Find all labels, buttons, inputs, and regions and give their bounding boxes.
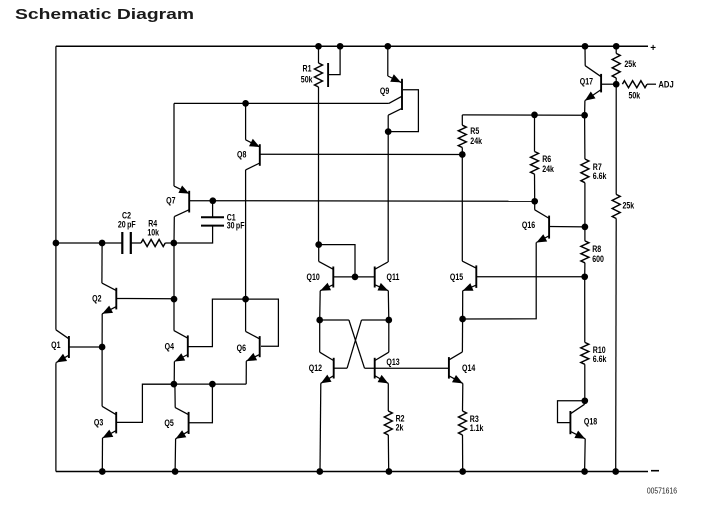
wire ADJ node down to 25k lower bbox=[615, 84, 617, 194]
wire R6 bottom lead bbox=[534, 174, 536, 201]
wire R3 to rail bbox=[462, 435, 464, 472]
svg-text:Q12: Q12 bbox=[309, 363, 323, 373]
wire C2 to R4 bbox=[131, 242, 141, 244]
svg-text:Q2: Q2 bbox=[92, 294, 102, 304]
wire 25k lower to rail bbox=[615, 219, 618, 472]
wire Q15 collector column bbox=[461, 155, 463, 262]
svg-text:Q15: Q15 bbox=[450, 272, 464, 282]
wire Q2 base bbox=[116, 298, 174, 300]
transistor Q9 collector diagonal bbox=[388, 109, 401, 116]
svg-text:Q18: Q18 bbox=[584, 417, 598, 427]
resistor 50k bbox=[622, 81, 647, 88]
wire X right horizontal bbox=[362, 319, 389, 321]
svg-text:Q8: Q8 bbox=[237, 150, 247, 160]
wire Q10 collector drop bbox=[318, 245, 320, 262]
wire Q12 base segment bbox=[334, 367, 347, 369]
transistor Q7 bbox=[174, 186, 189, 217]
node R8 bottom / Q15 base bbox=[581, 273, 588, 280]
resistor R2 bbox=[384, 411, 392, 435]
node Q9 collector junction bbox=[385, 128, 392, 135]
wire Q10 collector-base tie bbox=[319, 245, 355, 277]
svg-text:Q16: Q16 bbox=[522, 220, 536, 230]
wire Q8 emitter from line bbox=[245, 103, 247, 139]
node Q9 emitter on rail bbox=[384, 43, 391, 50]
node Q16 base / R7 / R8 bbox=[582, 224, 589, 231]
transistor Q9 base diagonal bbox=[389, 96, 402, 103]
wire Q9 base-collector loop bbox=[388, 90, 418, 132]
wire Q12 emitter to rail bbox=[319, 383, 322, 471]
wire Q10-Q11 base line bbox=[333, 276, 374, 278]
resistor R6 bbox=[531, 152, 539, 175]
svg-text:30 pF: 30 pF bbox=[227, 221, 245, 231]
wire Q7 collector down bbox=[173, 217, 175, 243]
node R10 bottom / Q18 bbox=[581, 397, 588, 404]
wire R5 bottom lead bbox=[461, 148, 463, 155]
svg-text:R6: R6 bbox=[542, 154, 551, 164]
wire Q2 collector up bbox=[101, 243, 103, 283]
svg-text:25k: 25k bbox=[623, 201, 635, 211]
node Q8 emitter on Q9 base line bbox=[242, 100, 249, 107]
node Q4 emitter / Q5 collector bbox=[171, 381, 178, 388]
label - terminal bbox=[651, 470, 659, 472]
svg-text:2k: 2k bbox=[396, 423, 404, 433]
node Q6 collector / Q4 base bbox=[242, 296, 249, 303]
svg-text:Q17: Q17 bbox=[580, 77, 594, 87]
wire left rail upper bbox=[55, 46, 57, 330]
svg-text:R1: R1 bbox=[303, 63, 312, 73]
wire Q2 base column bbox=[173, 243, 175, 299]
wire Q18 base loop bbox=[558, 401, 585, 423]
node ADJ bbox=[613, 81, 620, 88]
node Q12 emitter on rail bbox=[316, 468, 323, 475]
wire 25k to ADJ node bbox=[615, 78, 617, 84]
wire Q13 collector drop bbox=[388, 320, 390, 352]
wire Q6 emitter down bbox=[245, 361, 247, 384]
transistor Q11 bbox=[375, 262, 389, 291]
node R3 on rail bbox=[459, 468, 466, 475]
wire R1 bottom to Q10 node bbox=[318, 87, 320, 245]
wire Q18 emitter to rail bbox=[584, 439, 587, 472]
wire Q13-Q14 base line bbox=[365, 367, 449, 369]
wire Q8 collector down to Q6 bbox=[245, 170, 247, 299]
node bar device on rail bbox=[337, 43, 344, 50]
svg-text:50k: 50k bbox=[629, 91, 641, 101]
wire Q5 collector up bbox=[174, 384, 176, 408]
wire R5 top lead bbox=[461, 115, 463, 125]
transistor Q9 emitter diagonal bbox=[388, 76, 402, 83]
svg-text:600: 600 bbox=[592, 254, 604, 264]
svg-text:Q5: Q5 bbox=[164, 418, 174, 428]
wire Q7 base bbox=[189, 200, 213, 202]
transistor Q12 bbox=[320, 352, 334, 383]
wire Q15 emitter down bbox=[462, 291, 464, 319]
wire R8 bottom lead bbox=[584, 263, 586, 277]
node 25k lower on rail bbox=[612, 468, 619, 475]
node Q5 emitter on rail bbox=[172, 468, 179, 475]
resistor R5 bbox=[458, 125, 466, 147]
svg-text:20 pF: 20 pF bbox=[118, 220, 136, 230]
wire rail to C2 bbox=[56, 242, 122, 244]
svg-text:Q11: Q11 bbox=[387, 272, 400, 282]
wire Q12 collector drop bbox=[319, 320, 321, 352]
wire R2 to rail bbox=[387, 435, 389, 472]
wire R4 to C1 corner bbox=[165, 242, 174, 244]
node 25k top on rail bbox=[613, 43, 620, 50]
svg-text:Q6: Q6 bbox=[237, 343, 247, 353]
wire R8 top lead bbox=[584, 227, 586, 241]
transistor Q10 bbox=[319, 261, 334, 290]
wire R7 bottom lead bbox=[584, 183, 586, 227]
wire Q3 base route bbox=[116, 384, 174, 422]
node Q7 base / C1 bbox=[209, 197, 216, 204]
wire V+ top rail bbox=[56, 45, 648, 47]
node Q2 collector branch bbox=[99, 240, 106, 247]
wire Q5 emitter to rail bbox=[174, 439, 177, 472]
resistor R8 bbox=[581, 241, 589, 263]
wire left rail lower bbox=[55, 363, 57, 471]
wire Q17 base to ADJ node bbox=[601, 83, 616, 85]
transistor Q6 bbox=[246, 331, 260, 361]
svg-text:Q1: Q1 bbox=[51, 340, 61, 350]
node R2 on rail bbox=[386, 468, 393, 475]
wire Q15 base line to R8 node bbox=[476, 276, 584, 278]
wire Q14 emitter to R3 bbox=[462, 383, 464, 411]
wire Q9 base line bbox=[174, 102, 389, 104]
svg-text:25k: 25k bbox=[624, 59, 636, 69]
wire X diagonal to Q13 base bbox=[349, 320, 365, 368]
wire Q1 emitter down bbox=[55, 361, 58, 364]
svg-text:50k: 50k bbox=[301, 75, 313, 85]
transistor Q3 bbox=[102, 406, 116, 438]
wire X diagonal to Q12 base bbox=[347, 320, 361, 368]
transistor Q8 bbox=[246, 139, 260, 170]
node Q3 emitter on rail bbox=[99, 468, 106, 475]
node R1 top on rail bbox=[315, 43, 322, 50]
transistor Q1 bbox=[56, 330, 69, 363]
svg-text:00571616: 00571616 bbox=[647, 486, 677, 496]
epi-FET current source bar beside R1 bbox=[327, 63, 329, 87]
wire Q4 emitter down bbox=[173, 362, 175, 385]
svg-text:R5: R5 bbox=[470, 126, 479, 136]
node left rail / C2 line bbox=[53, 240, 60, 247]
wire R5 top corner line bbox=[462, 114, 584, 116]
svg-text:ADJ: ADJ bbox=[658, 79, 674, 90]
wire Q16 base bbox=[549, 226, 585, 228]
resistor R1 bbox=[315, 63, 323, 87]
transistor Q16 bbox=[535, 210, 549, 243]
node Q10-Q11 base tie bbox=[352, 274, 359, 281]
svg-text:Q4: Q4 bbox=[165, 342, 175, 352]
svg-text:Q10: Q10 bbox=[307, 272, 321, 282]
wire C1 riser from Q7 base node bbox=[212, 201, 214, 218]
node Q17 collector on rail bbox=[582, 43, 589, 50]
node Q2 base junction bbox=[171, 296, 178, 303]
svg-text:+: + bbox=[650, 43, 656, 54]
wire Q9 collector down bbox=[387, 115, 389, 131]
wire Q8 base line to R5 node bbox=[260, 153, 463, 155]
transistor Q5 bbox=[175, 408, 188, 439]
node Q17 emitter junction bbox=[581, 112, 588, 119]
transistor Q13 bbox=[375, 352, 389, 383]
node Q11 emitter / Q13 collector bbox=[385, 317, 392, 324]
wire R10 top lead bbox=[584, 277, 586, 343]
wire Q4 base route bbox=[188, 299, 246, 347]
resistor 25k upper bbox=[612, 53, 620, 78]
svg-text:R8: R8 bbox=[592, 244, 601, 254]
wire Q2 emitter down bbox=[101, 314, 103, 347]
node R4 / Q2 base column bbox=[170, 240, 177, 247]
transistor Q17 bbox=[585, 66, 601, 101]
svg-text:6.6k: 6.6k bbox=[593, 354, 607, 364]
wire R7 top lead bbox=[584, 115, 586, 159]
svg-text:24k: 24k bbox=[542, 164, 554, 174]
wire 25k top lead bbox=[615, 46, 617, 53]
wire Q3 collector up bbox=[101, 347, 103, 406]
wire Q11 emitter down bbox=[387, 291, 390, 320]
node R6 top bbox=[531, 112, 538, 119]
wire V- bottom rail bbox=[56, 471, 648, 473]
wire C1 bottom to R4 line bbox=[174, 226, 213, 243]
node Q10 collector / R1 bottom bbox=[315, 241, 322, 248]
svg-text:Q3: Q3 bbox=[94, 417, 104, 427]
wire Q9 collector to Q11 bbox=[387, 132, 389, 263]
capacitor C2 right plate bbox=[130, 232, 132, 254]
node R5 / Q8 base / Q15 collector bbox=[459, 151, 466, 158]
node Q10 emitter / Q12 collector bbox=[316, 317, 323, 324]
resistor 25k lower bbox=[612, 194, 620, 218]
wire Q14 collector up bbox=[461, 319, 463, 352]
wire Q17 collector from rail bbox=[584, 46, 586, 65]
capacitor C1 top plate bbox=[201, 216, 224, 218]
transistor Q9 bar bbox=[401, 79, 403, 110]
node Q18 emitter on rail bbox=[581, 468, 588, 475]
wire Q9 emitter from rail bbox=[387, 46, 389, 76]
wire Q6 base loop bbox=[246, 299, 279, 346]
resistor R7 bbox=[581, 159, 589, 183]
wire to ADJ terminal bbox=[647, 83, 656, 85]
wire Q13 emitter to R2 bbox=[387, 383, 389, 411]
svg-text:Q9: Q9 bbox=[380, 86, 390, 96]
node Q5 base junction bbox=[209, 381, 216, 388]
node Q1 base / Q2-Q3 junction bbox=[99, 344, 106, 351]
svg-text:Q7: Q7 bbox=[166, 196, 176, 206]
resistor R4 bbox=[141, 240, 165, 247]
wire Q2 base column lower bbox=[173, 299, 175, 331]
wire Q18 collector tie bbox=[584, 401, 586, 405]
svg-text:24k: 24k bbox=[470, 136, 482, 146]
capacitor C1 bottom plate bbox=[201, 225, 224, 227]
svg-text:6.6k: 6.6k bbox=[593, 171, 607, 181]
wire bar device tap to rail bbox=[328, 46, 340, 74]
transistor Q15 bbox=[462, 261, 476, 291]
svg-text:1.1k: 1.1k bbox=[470, 423, 484, 433]
wire Q7 emitter drop from line bbox=[173, 103, 175, 186]
transistor Q2 bbox=[102, 283, 116, 314]
wire X left horizontal bbox=[320, 319, 349, 321]
transistor Q14 bbox=[449, 352, 463, 384]
wire Q15 emitter bus to Q16 bbox=[463, 243, 537, 320]
svg-text:Q13: Q13 bbox=[386, 357, 400, 367]
transistor Q9 emitter arrow bbox=[390, 74, 401, 82]
svg-text:Schematic Diagram: Schematic Diagram bbox=[15, 6, 194, 23]
wire Q1 base bbox=[69, 346, 102, 348]
wire R10 bottom lead bbox=[584, 364, 586, 401]
wire R1 top lead bbox=[318, 46, 320, 63]
capacitor C2 left plate bbox=[121, 232, 123, 254]
resistor R3 bbox=[459, 411, 467, 435]
wire Q3 emitter to rail bbox=[101, 438, 103, 472]
svg-text:10k: 10k bbox=[147, 228, 159, 238]
resistor R10 bbox=[581, 342, 589, 364]
svg-text:Q14: Q14 bbox=[462, 363, 476, 373]
transistor Q4 bbox=[174, 331, 188, 362]
wire Q3-base bus bbox=[142, 383, 246, 385]
wire R6 top lead bbox=[534, 115, 536, 152]
wire Q6 collector from node bbox=[245, 299, 247, 331]
node Q15 emitter / Q14 collector bbox=[459, 316, 466, 323]
wire Q5 base route bbox=[189, 384, 213, 423]
transistor Q18 bbox=[570, 404, 585, 439]
wire Q10 emitter down bbox=[319, 291, 322, 320]
wire Q17 emitter down bbox=[584, 101, 586, 116]
node R6 bottom / Q16 collector bbox=[531, 198, 538, 205]
wire Q16 collector up bbox=[534, 201, 536, 210]
wire Q7 base bus to R6/Q16 bbox=[213, 200, 535, 203]
